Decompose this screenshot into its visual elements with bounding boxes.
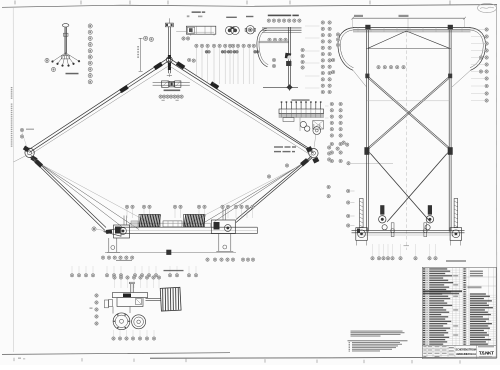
actuator coil spring bbox=[160, 287, 181, 311]
dimension under apex bbox=[168, 73, 170, 77]
bottom-left corner marks bbox=[18, 358, 21, 359]
front view right horn bbox=[470, 28, 486, 71]
notes block 1 bbox=[351, 330, 403, 333]
actuator callout row top bbox=[113, 276, 116, 279]
manifold comb bbox=[281, 103, 283, 110]
inner bearing left bbox=[380, 205, 384, 214]
front base rails bbox=[352, 229, 465, 231]
apex spindle rod bbox=[168, 18, 170, 23]
bearing block left bbox=[114, 225, 130, 238]
head detail base bbox=[263, 87, 298, 89]
head detail lower tube bbox=[259, 40, 289, 42]
bracket below right block bbox=[218, 233, 220, 251]
svg-text:ABNEHMER BAH.: ABNEHMER BAH. bbox=[456, 352, 477, 356]
single balloon left of base bbox=[92, 227, 96, 231]
balloons right of apex bbox=[188, 58, 191, 61]
outer bearing left bbox=[360, 199, 364, 228]
knee label text bbox=[274, 146, 283, 147]
manifold label bbox=[292, 99, 310, 100]
clamp mini section below apex bbox=[153, 82, 190, 84]
long balloon row bbox=[70, 274, 73, 277]
under-bow struts bbox=[368, 31, 406, 48]
sheet top border bbox=[2, 5, 497, 8]
head detail bow tubes bbox=[262, 27, 302, 29]
balloon row under top-center details bbox=[195, 44, 198, 47]
knee joint left bbox=[25, 148, 34, 157]
see-table note bbox=[446, 260, 466, 261]
manifold body bbox=[279, 109, 324, 114]
actuator callout col left bbox=[95, 294, 98, 297]
sheet bottom border bbox=[2, 353, 230, 355]
balloon row above base bbox=[125, 205, 128, 208]
spring right bbox=[184, 214, 205, 226]
bolt detail label bbox=[66, 73, 79, 75]
corner stamp top right bbox=[478, 3, 497, 12]
center line bbox=[405, 33, 407, 250]
mini boxes on beam bbox=[163, 221, 182, 227]
balloons left of apex bbox=[144, 36, 148, 40]
upper arm left bbox=[28, 58, 168, 150]
detail box (head mount plan) bbox=[192, 11, 201, 13]
head detail post bbox=[288, 27, 290, 88]
bottom fold ticks bbox=[13, 358, 15, 361]
knee joint right bbox=[309, 148, 318, 157]
knee area balloons bbox=[328, 146, 331, 149]
head detail balloon row bbox=[267, 19, 270, 22]
parts list table bbox=[422, 267, 496, 358]
base beam bbox=[121, 226, 258, 228]
clamp label bbox=[164, 90, 181, 92]
lower arm left fan bbox=[31, 156, 106, 228]
actuator callout row bottom bbox=[112, 337, 115, 340]
arm section blobs bbox=[119, 85, 128, 93]
detail clevis circles bbox=[226, 17, 237, 18]
lower cross arms bbox=[370, 153, 430, 221]
actuator valve body bbox=[113, 293, 148, 298]
manifold balloon columns bbox=[330, 102, 333, 105]
front view right balloon column bbox=[485, 28, 488, 31]
front view left horn bbox=[338, 28, 354, 71]
svg-text:SCHERENSTROM-: SCHERENSTROM- bbox=[456, 348, 477, 352]
vertical dimension at apex bbox=[140, 38, 142, 71]
tie rod bbox=[130, 222, 211, 224]
bow clamps bbox=[365, 25, 370, 29]
title block bbox=[422, 344, 496, 346]
actuator stem bbox=[130, 284, 132, 293]
bolt callout balloons bbox=[45, 58, 49, 62]
sheet left margin line bbox=[12, 7, 14, 352]
head detail horn bbox=[257, 28, 268, 67]
bolt exploded fan bbox=[53, 53, 66, 62]
actuator piston rod bbox=[146, 297, 161, 299]
front view bow tubes bbox=[353, 27, 471, 29]
bolt callout balloon column bbox=[88, 24, 92, 28]
leader apex to box detail bbox=[176, 31, 186, 33]
center mark bbox=[404, 245, 410, 247]
front view mid balloons bbox=[377, 66, 380, 69]
header band rows bbox=[423, 290, 462, 292]
front view balloons left column bbox=[347, 189, 350, 192]
front view dimension line bbox=[353, 17, 465, 19]
front view top-left balloons bbox=[336, 33, 339, 36]
pulley above knee bbox=[313, 127, 321, 135]
damper links above blocks bbox=[222, 209, 224, 221]
detail flange circle bbox=[246, 16, 253, 17]
balloon row under base right bbox=[206, 258, 209, 261]
long leader line bbox=[347, 162, 350, 165]
post collars bbox=[365, 74, 369, 79]
bearing block right bbox=[211, 220, 235, 233]
spring left bbox=[139, 214, 160, 226]
apex joint bbox=[166, 57, 172, 63]
dark pairs below bbox=[205, 50, 208, 53]
air pipe bbox=[107, 252, 236, 254]
actuator label bbox=[164, 270, 184, 271]
head detail label bbox=[268, 15, 291, 17]
inner bearing right bbox=[428, 205, 432, 214]
clamp balloon row bbox=[159, 95, 162, 98]
frame posts bbox=[365, 30, 367, 232]
left margin rotated text bbox=[11, 87, 13, 88]
sheet right border bbox=[495, 5, 498, 358]
cross brace X bbox=[368, 77, 449, 148]
bracket below left block bbox=[108, 238, 110, 252]
mid joints bbox=[364, 147, 369, 155]
upper arm right bbox=[169, 58, 312, 150]
head detail balloons bbox=[268, 38, 271, 41]
front view balloons below bbox=[371, 257, 374, 260]
lower arm right fan bbox=[236, 156, 312, 220]
top fold ticks bbox=[14, 1, 16, 5]
balloon row under base left bbox=[101, 256, 104, 259]
svg-text:T.5.NKT: T.5.NKT bbox=[479, 350, 494, 355]
actuator flange circles bbox=[113, 313, 130, 330]
small posts bbox=[391, 223, 394, 237]
balloon columns of head detail bbox=[321, 21, 324, 24]
detail: suspension bolt pin bbox=[62, 24, 69, 27]
notes block 2 bbox=[348, 339, 408, 342]
manifold lower parts bbox=[283, 118, 294, 122]
outer bearing right bbox=[454, 199, 458, 228]
drawing number bbox=[478, 346, 494, 347]
base left cone end bbox=[104, 227, 121, 236]
